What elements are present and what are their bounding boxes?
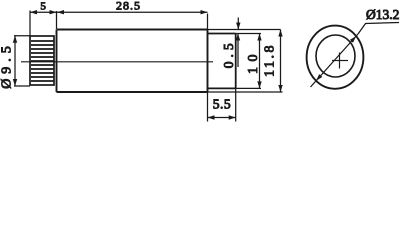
dimension 0.5 (front lip) [236, 18, 241, 68]
front view inner circle [316, 35, 355, 77]
dimension 28.5 (body length) [57, 10, 208, 30]
dimension dia 9.5 (knurl diameter) [13, 36, 30, 86]
svg-text:28.5: 28.5 [116, 0, 141, 12]
svg-text:Ø9.5: Ø9.5 [0, 41, 14, 89]
front step section outline [208, 34, 236, 89]
knurl hatch lines [31, 41, 54, 81]
knurled cap outline [30, 36, 54, 85]
dimension 11.8 (body diameter) [208, 30, 283, 93]
svg-text:10: 10 [246, 49, 261, 74]
svg-text:0.5: 0.5 [221, 39, 236, 68]
main body outline [57, 30, 209, 93]
dia 13.2 leader line [311, 23, 400, 88]
center cross [332, 53, 348, 69]
dimension 10 (front section diameter) [236, 34, 262, 89]
svg-text:5.5: 5.5 [213, 97, 231, 112]
centerline of cylinder side view [21, 61, 213, 63]
front view outer circle [307, 26, 364, 89]
svg-text:11.8: 11.8 [263, 43, 278, 77]
svg-text:Ø13.2: Ø13.2 [366, 7, 399, 22]
svg-text:5: 5 [40, 1, 46, 13]
dimension 5 (knurl length) [30, 10, 208, 36]
dimension 5.5 (front section length) [208, 88, 236, 121]
